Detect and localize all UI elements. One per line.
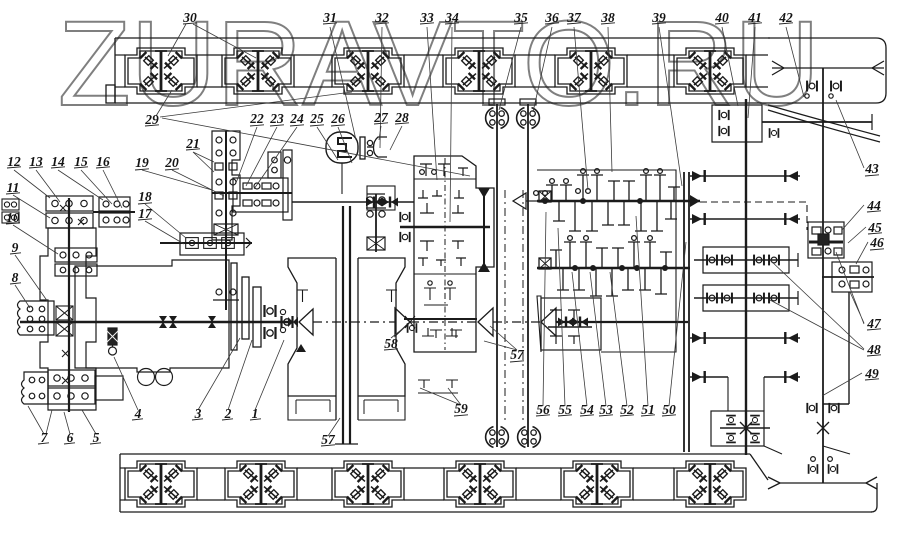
gearbox drop shaft [483,190,485,270]
svg-text:50: 50 [662,402,676,417]
winch vertical shafts [335,206,358,444]
band junction boxes for shafts [489,99,536,105]
cross shaft y176 [690,170,800,182]
bottom band connectors [120,468,674,500]
shaft A gears [534,169,680,231]
transfer lower PTO box [541,298,601,350]
svg-text:16: 16 [96,154,110,169]
svg-text:58: 58 [384,336,398,351]
svg-text:33: 33 [419,10,434,25]
top accessory gear stack (item 28 area) [366,194,386,252]
svg-text:9: 9 [12,240,19,255]
top frame band [106,38,770,103]
top right transfer box [712,105,872,142]
svg-text:24: 24 [289,111,304,126]
label underlines [6,23,884,446]
shaft to gearbox top [292,186,414,210]
svg-text:41: 41 [747,10,762,25]
transfer shaft B [537,267,690,269]
svg-text:17: 17 [138,206,153,221]
svg-text:10: 10 [6,210,20,225]
mid axle gearbox upper [694,247,798,273]
svg-text:18: 18 [138,189,152,204]
longitudinal shaft L2 [517,104,541,447]
svg-text:42: 42 [778,10,793,25]
bottom wheel block 1 [125,461,197,507]
svg-text:29: 29 [144,112,159,127]
svg-text:44: 44 [866,198,881,213]
svg-text:20: 20 [164,155,179,170]
svg-text:34: 34 [444,10,459,25]
cross shaft y219 [690,213,800,225]
svg-text:23: 23 [269,111,284,126]
svg-text:35: 35 [513,10,528,25]
clutch pack plates [231,263,293,350]
bottom right link gears [764,446,850,474]
svg-text:32: 32 [374,10,389,25]
rear axle gearbox [711,411,770,446]
main driveline shaft [20,321,292,324]
longitudinal shaft L1 [486,104,509,447]
svg-text:15: 15 [74,154,88,169]
svg-text:54: 54 [580,402,594,417]
svg-text:5: 5 [93,430,100,445]
top right drawbar frame [768,38,886,103]
engine left pillar [288,258,336,420]
top band connectors [115,55,768,87]
axle centerline dashes [505,190,523,420]
unit 46/47 [822,262,874,292]
driveline separation cones [313,308,688,336]
svg-text:31: 31 [322,10,337,25]
top right axle gears [805,81,841,99]
svg-text:43: 43 [864,161,879,176]
svg-text:38: 38 [600,10,615,25]
u-joint crosses on driveline [159,316,216,328]
svg-text:46: 46 [869,235,884,250]
svg-text:13: 13 [29,154,43,169]
svg-text:30: 30 [182,10,197,25]
svg-text:57: 57 [510,347,525,362]
svg-text:25: 25 [309,111,324,126]
mid axle gearbox lower [694,285,798,311]
top wheel block 1 [125,48,197,94]
kingpin bevel boxes [56,306,73,384]
unit 44/45 [808,222,844,258]
gear unit items 17/18 [160,233,252,255]
transfer case housing [537,170,676,352]
front axle housing outline [40,228,96,410]
svg-text:22: 22 [249,111,264,126]
upper wheel hub cluster [46,196,93,228]
shaft B mesh dots [572,265,668,271]
svg-text:45: 45 [867,220,882,235]
svg-text:37: 37 [566,10,582,25]
gearbox housing [414,156,494,352]
top right fender curves [768,105,880,142]
top wheel block 3 [332,48,404,94]
chassis / engine block outline [75,260,229,386]
svg-text:1: 1 [252,406,259,421]
transfer shaft A [537,195,700,207]
svg-text:59: 59 [454,401,468,416]
lower wheel hub cluster [22,370,124,404]
cross shaft y377 [690,371,800,411]
gearbox input gears [400,164,490,336]
fan drive oval (item 25/26) [326,132,358,194]
top wheel block 4 [443,48,515,94]
left middle tire block [18,301,55,335]
leader lines [13,24,868,436]
bottom wheel block 2 [225,461,297,507]
svg-text:48: 48 [866,342,881,357]
clutch output cone [280,309,313,335]
svg-text:21: 21 [185,136,200,151]
top wheel block 5 [555,48,627,94]
svg-text:56: 56 [536,402,550,417]
bottom frame band [120,454,877,512]
svg-text:36: 36 [544,10,559,25]
far-left small hub rows [2,199,19,223]
svg-text:27: 27 [373,110,389,125]
svg-text:52: 52 [620,402,634,417]
svg-text:28: 28 [394,110,409,125]
rear drive vertical shaft pair [684,172,689,452]
item 4 (pump) [106,328,119,355]
svg-text:40: 40 [714,10,729,25]
number labels [6,10,884,447]
svg-text:51: 51 [641,402,655,417]
svg-text:53: 53 [599,402,613,417]
svg-text:14: 14 [51,154,65,169]
PTO cross shaft and box (items 22-24) [212,150,292,220]
svg-text:11: 11 [7,180,20,195]
svg-text:3: 3 [194,406,202,421]
top wheel block 6 [674,48,746,94]
front axle kingpin shaft [68,198,70,412]
svg-text:2: 2 [224,406,232,421]
gearbox bevel diamonds [478,188,490,272]
top wheel block 2 [222,48,294,94]
svg-text:8: 8 [12,270,19,285]
shaft B gears [539,236,672,296]
svg-text:47: 47 [866,316,882,331]
bottom wheel block 6 [674,461,746,507]
svg-text:57: 57 [321,432,336,447]
second hub row pair [55,248,97,276]
mid drive vertical shaft [745,99,747,455]
dashed pto line [700,202,807,230]
svg-text:39: 39 [651,10,666,25]
svg-text:ZURAVTO.RU: ZURAVTO.RU [58,0,820,131]
svg-text:4: 4 [134,406,142,421]
bottom wheel block 4 [444,461,516,507]
right drive vertical shaft [822,68,824,483]
svg-text:49: 49 [864,366,879,381]
coupling beside oval [360,137,387,159]
engine right pillar [358,258,405,420]
cross shaft y338 [690,332,800,344]
gearbox lower output shaft [404,319,477,393]
bottom wheel block 3 [332,461,404,507]
svg-text:26: 26 [330,111,345,126]
gears 49 [807,403,838,434]
svg-text:12: 12 [7,154,21,169]
svg-text:55: 55 [558,402,572,417]
svg-text:6: 6 [67,430,74,445]
transfer input cone [513,193,537,209]
svg-text:19: 19 [135,155,149,170]
shaft A mesh dots [542,198,643,204]
bottom wheel block 5 [561,461,633,507]
right lower shaft [823,292,849,404]
upper transfer gear cluster (items 14-16) [93,197,135,227]
PTO gear stack (item 21) [212,131,240,310]
